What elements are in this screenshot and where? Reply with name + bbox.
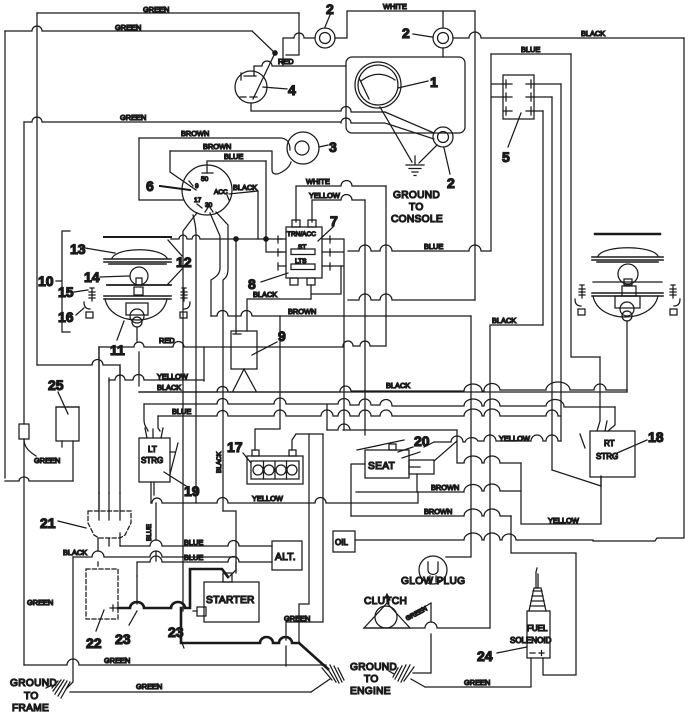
wire starter trigger bbox=[230, 562, 236, 576]
label 3 bbox=[319, 139, 337, 155]
svg-text:GROUND: GROUND bbox=[350, 662, 397, 673]
wire 463 link bbox=[457, 441, 521, 463]
right plate 3 bbox=[592, 293, 663, 296]
svg-text:5: 5 bbox=[502, 149, 510, 165]
wire BROWN mid bbox=[211, 307, 471, 316]
wire vertical from green1 bbox=[36, 13, 38, 365]
svg-text:9: 9 bbox=[195, 183, 199, 190]
wire key bottom left drop bbox=[183, 213, 197, 611]
svg-text:18: 18 bbox=[648, 429, 664, 445]
wire bulb stem down bbox=[137, 327, 627, 392]
label 1 bbox=[398, 74, 438, 90]
svg-text:YELLOW: YELLOW bbox=[548, 516, 579, 525]
label 14 bbox=[84, 269, 129, 285]
right lamp neck bbox=[622, 286, 636, 296]
bold cable battery to starter bbox=[118, 569, 228, 608]
wire vertical 571 bbox=[571, 54, 600, 357]
svg-text:BLUE: BLUE bbox=[184, 538, 203, 547]
svg-text:GREEN: GREEN bbox=[104, 656, 130, 665]
svg-text:BROWN: BROWN bbox=[181, 129, 209, 138]
svg-text:STRG: STRG bbox=[141, 456, 163, 465]
svg-text:BLACK: BLACK bbox=[216, 451, 223, 473]
svg-text:20: 20 bbox=[414, 433, 430, 449]
wire comp21 feeds bbox=[99, 347, 120, 493]
wire green engine right bbox=[411, 678, 531, 687]
console box bbox=[346, 57, 465, 133]
wire relay5 right pin2 bbox=[534, 96, 552, 98]
label 23 b bbox=[168, 624, 184, 648]
key switch 6 bbox=[182, 165, 232, 215]
right headlight dome bbox=[598, 248, 658, 256]
label 6 bbox=[146, 178, 190, 194]
svg-text:15: 15 bbox=[58, 284, 74, 300]
label 7 bbox=[318, 213, 338, 241]
lamp socket bbox=[126, 303, 148, 327]
wire WHITE top bbox=[335, 2, 475, 38]
right socket bbox=[615, 296, 640, 321]
bulb 14 bbox=[130, 267, 148, 285]
wire mid 430 bbox=[327, 424, 457, 430]
left headlight plate 2 bbox=[107, 285, 171, 295]
svg-text:10: 10 bbox=[38, 273, 54, 289]
svg-text:BLUE: BLUE bbox=[224, 152, 243, 161]
svg-text:SEAT: SEAT bbox=[368, 461, 395, 472]
svg-text:21: 21 bbox=[40, 515, 56, 531]
wire key50 drop to ST bbox=[264, 161, 282, 252]
harness connector 21 bbox=[88, 493, 131, 538]
svg-text:ENGINE: ENGINE bbox=[350, 686, 391, 697]
wire yellow bus to seat bbox=[151, 492, 418, 503]
svg-text:YELLOW: YELLOW bbox=[309, 191, 340, 200]
svg-text:4: 4 bbox=[288, 82, 296, 98]
svg-text:BROWN: BROWN bbox=[203, 142, 231, 151]
svg-text:9: 9 bbox=[278, 328, 286, 344]
right headlight top bar bbox=[595, 233, 660, 235]
right plate 2 bbox=[593, 281, 662, 283]
wire YELLOW switch bbox=[309, 191, 365, 222]
wire black lamp feed 490 bbox=[490, 316, 543, 628]
wire grommet2R stem bbox=[442, 11, 444, 57]
svg-text:GROUND: GROUND bbox=[10, 678, 57, 689]
label 11 bbox=[110, 321, 125, 358]
ignition switch block 7 bbox=[278, 220, 330, 285]
svg-text:BROWN: BROWN bbox=[288, 307, 316, 316]
svg-text:11: 11 bbox=[110, 342, 125, 358]
svg-text:RED: RED bbox=[278, 57, 294, 66]
wire BROWN horn 1 bbox=[139, 129, 290, 150]
connector 17 bbox=[247, 450, 303, 484]
clutch bbox=[364, 594, 410, 628]
wire conn17 left pin up bbox=[255, 316, 280, 450]
svg-text:BLACK: BLACK bbox=[63, 548, 87, 557]
svg-text:ACC: ACC bbox=[214, 189, 228, 196]
wire BLACK bus main bbox=[139, 381, 627, 392]
left headlight dome 13 bbox=[112, 250, 167, 258]
label 21 bbox=[40, 515, 86, 531]
svg-text:12: 12 bbox=[176, 254, 192, 270]
svg-text:TRN/ACC: TRN/ACC bbox=[287, 231, 316, 238]
wire key17 feed bbox=[139, 138, 183, 200]
wire lamp line to switch bbox=[170, 238, 172, 240]
wire RED low bbox=[99, 336, 386, 347]
fuel solenoid bbox=[510, 568, 552, 658]
wire BLACK low bbox=[63, 548, 236, 557]
label 2 top-left bbox=[325, 1, 334, 27]
wire grommet-lower to ground diag bbox=[419, 145, 437, 163]
wire LT STRG bottom pin bbox=[146, 482, 156, 561]
svg-text:CONSOLE: CONSOLE bbox=[391, 214, 443, 225]
component 25 bbox=[48, 377, 79, 441]
svg-text:BLUE: BLUE bbox=[521, 45, 540, 54]
label 22 bbox=[86, 610, 104, 651]
wire battery top RED bbox=[254, 57, 346, 76]
wire green drop 323 bbox=[284, 434, 323, 666]
label 20 bbox=[398, 433, 430, 458]
svg-text:LT: LT bbox=[148, 445, 157, 454]
label 12 bbox=[168, 240, 192, 284]
svg-text:BLACK: BLACK bbox=[581, 29, 605, 38]
svg-text:16: 16 bbox=[58, 309, 74, 325]
svg-text:24: 24 bbox=[477, 648, 493, 664]
wire BLUE alt 2 bbox=[137, 553, 272, 576]
wire green mid left bbox=[24, 598, 326, 665]
wire red-yellow link 204 bbox=[203, 347, 205, 381]
svg-text:23: 23 bbox=[168, 624, 184, 640]
wire black jog to starter bbox=[223, 511, 236, 573]
label 23 a bbox=[115, 611, 137, 647]
right screws bbox=[575, 285, 585, 315]
wire vertical 552 bbox=[551, 97, 553, 470]
wire starter drop 309 bbox=[299, 434, 309, 643]
wire GREEN top 1 bbox=[37, 5, 299, 14]
wire brown drop 471 bbox=[446, 316, 471, 557]
svg-text:25: 25 bbox=[48, 377, 64, 393]
wire grommet feed bbox=[283, 33, 315, 66]
label 4 bbox=[263, 82, 296, 98]
wire BLUE alt 1 bbox=[120, 538, 272, 547]
wire relay5 right pin1 bbox=[534, 83, 561, 85]
wire GREEN 3 bbox=[24, 113, 434, 139]
svg-text:TO: TO bbox=[364, 674, 379, 685]
coil 9 bbox=[231, 331, 257, 369]
wire 430 corner down to seat bbox=[434, 430, 457, 461]
ground engine left hatch bbox=[322, 665, 344, 683]
svg-text:ST: ST bbox=[298, 244, 306, 251]
label 9 bbox=[252, 328, 286, 355]
label 24 bbox=[477, 647, 527, 664]
wire comp25 to green loop bbox=[34, 441, 73, 481]
svg-text:FRAME: FRAME bbox=[12, 703, 49, 712]
wire switch7 right pins bbox=[330, 239, 344, 430]
wire 600 to RT STRG bbox=[597, 357, 600, 431]
svg-text:2: 2 bbox=[402, 25, 410, 41]
svg-text:STRG: STRG bbox=[596, 452, 618, 461]
svg-text:FUEL: FUEL bbox=[527, 624, 548, 633]
wire BROWN B bbox=[351, 507, 511, 516]
wire left vertical green bbox=[5, 31, 73, 481]
grommet 2 right bbox=[433, 28, 453, 48]
svg-text:BLUE: BLUE bbox=[172, 407, 191, 416]
wire key30 drop bbox=[210, 213, 220, 316]
svg-text:GREEN: GREEN bbox=[405, 605, 429, 622]
label 13 bbox=[70, 241, 115, 257]
svg-text:17: 17 bbox=[194, 197, 202, 204]
wire gauge to ground diag bbox=[380, 107, 412, 162]
wire right edge vertical bbox=[593, 38, 684, 541]
svg-text:OIL: OIL bbox=[335, 538, 348, 547]
label 5 bbox=[502, 113, 521, 165]
svg-text:GREEN: GREEN bbox=[284, 614, 310, 623]
wire yellow C bbox=[521, 463, 601, 525]
svg-text:TO: TO bbox=[409, 202, 424, 213]
svg-text:BLACK: BLACK bbox=[157, 383, 181, 392]
wire solenoid minus down bbox=[530, 658, 532, 686]
svg-text:19: 19 bbox=[184, 483, 200, 499]
svg-text:GREEN: GREEN bbox=[27, 598, 53, 607]
wire YELLOW left bus bbox=[37, 360, 120, 378]
wire vertical white 386 bbox=[385, 186, 387, 346]
RT STRG 18 bbox=[580, 421, 635, 477]
wire relay5 right pin3 bbox=[534, 110, 543, 112]
wire TRN/ACC line bbox=[171, 235, 282, 241]
wire key .9 diag bbox=[170, 151, 196, 190]
label 18 bbox=[617, 429, 664, 453]
svg-text:WHITE: WHITE bbox=[306, 177, 330, 186]
glow plug bbox=[401, 556, 465, 587]
wire diagonal to battery bbox=[252, 31, 277, 99]
grommet 2 left bbox=[315, 28, 335, 48]
wire GREEN top 2 bbox=[5, 23, 252, 32]
svg-text:3: 3 bbox=[329, 139, 337, 155]
svg-text:YELLOW: YELLOW bbox=[157, 372, 188, 381]
fusible link on left wire bbox=[19, 424, 36, 456]
wire relay5 left pins bbox=[491, 54, 503, 251]
wire comp21 bottom wires bbox=[98, 533, 120, 566]
label 19 bbox=[164, 443, 200, 499]
wire top corner bbox=[286, 13, 299, 55]
wire clutch diag green bbox=[405, 603, 431, 673]
svg-text:STARTER: STARTER bbox=[206, 595, 255, 606]
relay 5 bbox=[503, 75, 534, 119]
ground to frame symbol bbox=[46, 557, 73, 698]
ground to console symbol bbox=[406, 156, 424, 176]
wire YELLOW mid bbox=[424, 434, 561, 447]
wire vertical 543 bbox=[542, 111, 544, 325]
svg-text:GREEN: GREEN bbox=[143, 5, 169, 14]
wire BLUE A to LT STRG bbox=[144, 404, 148, 431]
svg-text:GREEN: GREEN bbox=[120, 113, 146, 122]
bold cable ground 23 bbox=[181, 608, 328, 669]
alternator bbox=[272, 541, 302, 570]
wire left vertical 2 bbox=[23, 122, 25, 665]
svg-text:BLUE: BLUE bbox=[184, 553, 203, 562]
wire yellow left bus 2 bbox=[109, 372, 204, 381]
label GROUND TO FRAME bbox=[10, 678, 57, 712]
wire red corner down bbox=[98, 347, 100, 511]
bracket 10 bbox=[38, 231, 70, 332]
wire BROWN A bbox=[417, 483, 521, 492]
wire BLACK acc bbox=[229, 183, 258, 239]
wire BROWN horn 2 bbox=[170, 142, 291, 174]
left headlight top line bbox=[104, 236, 171, 238]
horn 3 bbox=[287, 132, 319, 164]
svg-text:BLACK: BLACK bbox=[386, 381, 410, 390]
svg-text:GLOW PLUG: GLOW PLUG bbox=[401, 576, 465, 587]
label 16 bbox=[58, 308, 84, 325]
svg-text:23: 23 bbox=[115, 631, 131, 647]
wire conn17 right pin up bbox=[292, 434, 323, 450]
wire diag lamp feed to RT strg bbox=[552, 470, 601, 486]
svg-text:GREEN: GREEN bbox=[464, 678, 490, 687]
left headlight plate bbox=[104, 259, 171, 264]
battery 4 bbox=[235, 71, 267, 103]
svg-text:50: 50 bbox=[201, 176, 209, 183]
battery box 22 bbox=[86, 569, 118, 619]
oil switch bbox=[333, 531, 355, 552]
label GROUND TO ENGINE bbox=[350, 662, 397, 697]
svg-text:CLUTCH: CLUTCH bbox=[364, 596, 407, 607]
wire blue console mid bbox=[348, 242, 490, 251]
svg-text:YELLOW: YELLOW bbox=[499, 434, 530, 443]
right headlight plate bbox=[592, 257, 663, 262]
label 15 bbox=[58, 284, 88, 300]
wire WHITE switch bbox=[296, 177, 386, 222]
wire BLUE key50 bbox=[207, 152, 266, 173]
svg-text:6: 6 bbox=[146, 178, 154, 194]
wire switch7 pin2 bottom bbox=[311, 266, 341, 299]
wire coil V legs bbox=[233, 369, 256, 391]
wire BLACK top bbox=[453, 29, 684, 38]
svg-text:BLUE: BLUE bbox=[424, 242, 443, 251]
label BLACK vertical bbox=[216, 451, 223, 473]
svg-text:BLACK: BLACK bbox=[492, 316, 516, 325]
wire blue to RT pin bbox=[608, 407, 615, 431]
svg-text:GROUND: GROUND bbox=[393, 190, 440, 201]
wire BLUE console top bbox=[491, 45, 571, 54]
svg-text:14: 14 bbox=[84, 269, 100, 285]
svg-text:22: 22 bbox=[86, 635, 102, 651]
label 17 bbox=[227, 439, 251, 463]
svg-text:GREEN: GREEN bbox=[136, 682, 162, 691]
svg-text:BROWN: BROWN bbox=[431, 483, 459, 492]
wire BLACK coil bbox=[247, 290, 311, 331]
wire green bottom bbox=[70, 682, 311, 692]
LT STRG 19 bbox=[139, 428, 175, 482]
wire dot drop to coil bbox=[233, 239, 241, 334]
svg-text:BLACK: BLACK bbox=[233, 183, 257, 192]
screw 15 left bbox=[89, 288, 95, 301]
wire blue1 drop 327 bbox=[326, 405, 328, 430]
svg-text:GREEN: GREEN bbox=[34, 456, 60, 465]
wire battery bottom to ground bbox=[251, 103, 434, 133]
wire brown2 drop 511 bbox=[510, 515, 512, 517]
wire key bottom right drop bbox=[216, 212, 228, 511]
svg-text:17: 17 bbox=[227, 439, 243, 455]
wire clutch base bbox=[364, 622, 490, 628]
label GROUND TO CONSOLE bbox=[391, 190, 443, 225]
wire white corner vertical bbox=[474, 11, 476, 300]
wire right bulb stem bbox=[626, 321, 628, 392]
svg-text:ALT.: ALT. bbox=[275, 552, 296, 563]
svg-text:BROWN: BROWN bbox=[424, 507, 452, 516]
svg-text:13: 13 bbox=[70, 241, 86, 257]
label 8 bbox=[248, 273, 288, 292]
left headlight plate 3 bbox=[104, 296, 171, 299]
wire seat left loop bbox=[351, 464, 365, 516]
wire white drop link bbox=[348, 294, 475, 300]
svg-text:WHITE: WHITE bbox=[383, 2, 407, 11]
svg-text:YELLOW: YELLOW bbox=[252, 494, 283, 503]
right bowl bbox=[593, 296, 658, 317]
label 2 right bbox=[402, 25, 432, 41]
bracket-nut 16 left bbox=[84, 302, 93, 318]
svg-text:7: 7 bbox=[330, 213, 338, 229]
svg-text:RED: RED bbox=[159, 336, 175, 345]
svg-text:BLUE: BLUE bbox=[146, 523, 153, 541]
wire thin 137 starter bbox=[136, 576, 138, 604]
label 2 lower bbox=[444, 148, 455, 191]
svg-text:1: 1 bbox=[430, 74, 438, 90]
wire vertical 562 bbox=[560, 84, 562, 441]
starter motor bbox=[193, 573, 259, 622]
svg-text:2: 2 bbox=[447, 175, 455, 191]
svg-text:RT: RT bbox=[604, 439, 615, 448]
screw right of lamp bbox=[180, 288, 190, 318]
wire vertical yellow 365 bbox=[364, 200, 366, 435]
wire BLUE bus B bbox=[158, 407, 561, 416]
seat switch 20 bbox=[357, 440, 409, 478]
right bulb bbox=[618, 264, 638, 285]
svg-text:TO: TO bbox=[24, 691, 39, 702]
svg-text:BLACK: BLACK bbox=[253, 290, 277, 299]
left headlight bowl 11 bbox=[105, 299, 167, 320]
wire BLUE bus A bbox=[144, 398, 615, 407]
wire key bottom drop 2 bbox=[193, 215, 196, 503]
wire BLUE B to LT STRG bbox=[158, 416, 160, 431]
wire seat under loop bbox=[356, 474, 417, 492]
seat actuator box bbox=[409, 460, 434, 474]
gauge 1 bbox=[355, 62, 401, 108]
wire diag frame link bbox=[311, 679, 330, 692]
svg-text:GREEN: GREEN bbox=[115, 23, 141, 32]
fuel solenoid loop wire bbox=[511, 516, 576, 675]
wire oil to right edge bbox=[355, 533, 593, 540]
ground to engine hatch bbox=[389, 665, 414, 682]
grommet 2 lower bbox=[433, 127, 453, 147]
svg-text:SOLENOID: SOLENOID bbox=[510, 636, 552, 645]
